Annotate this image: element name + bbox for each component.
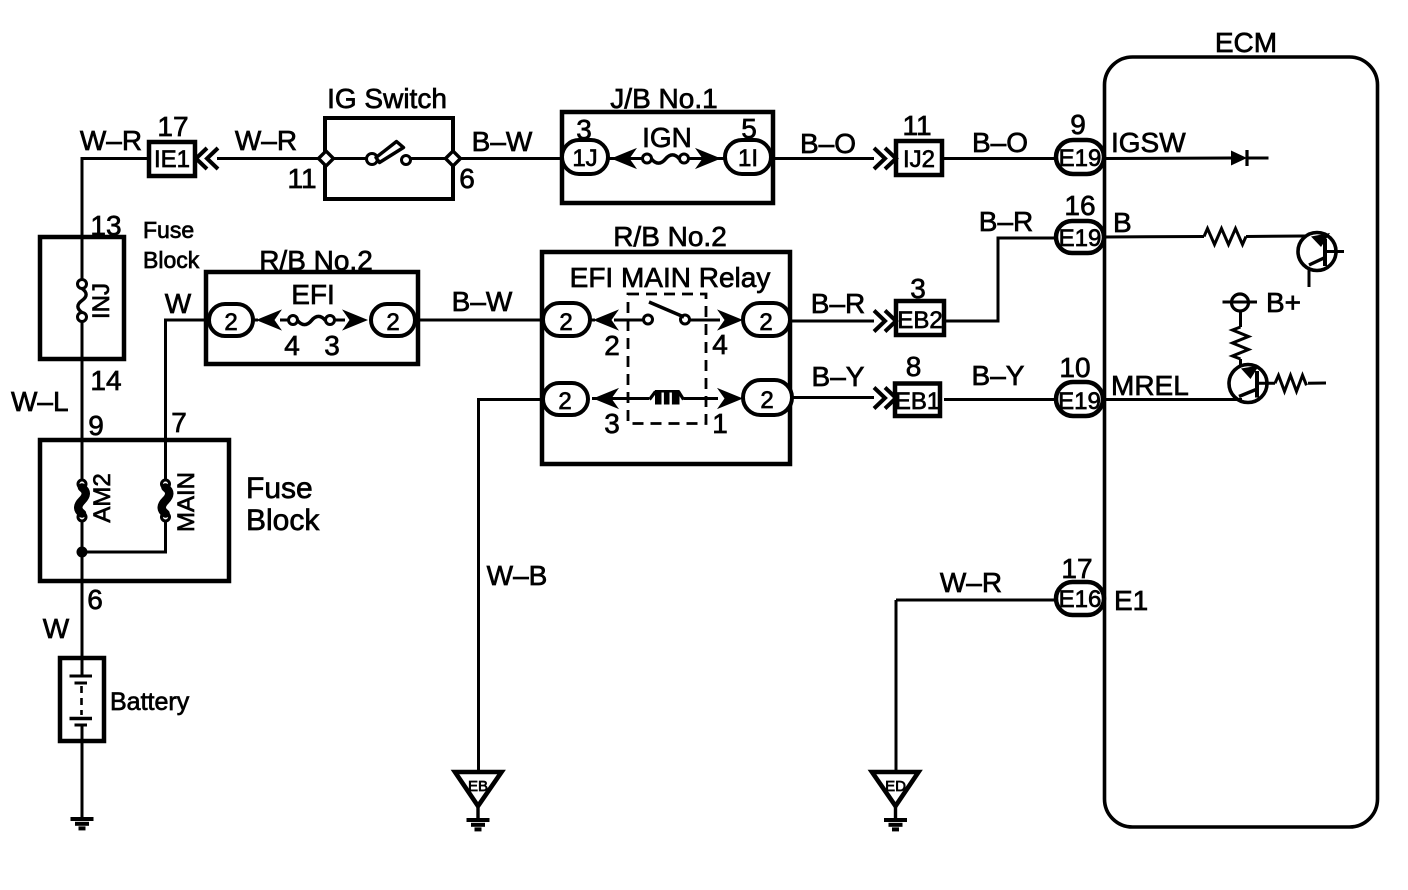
svg-text:2: 2 — [559, 309, 572, 336]
svg-text:B–Y: B–Y — [972, 360, 1025, 391]
svg-text:2: 2 — [224, 309, 237, 336]
svg-text:E16: E16 — [1059, 586, 1102, 613]
svg-text:16: 16 — [1064, 190, 1095, 221]
svg-text:EFI MAIN Relay: EFI MAIN Relay — [570, 262, 771, 293]
svg-text:MREL: MREL — [1111, 370, 1189, 401]
svg-text:B–O: B–O — [800, 128, 856, 159]
svg-text:E19: E19 — [1059, 145, 1102, 172]
svg-text:IE1: IE1 — [154, 146, 190, 173]
svg-text:1I: 1I — [738, 145, 758, 172]
svg-text:Fuse: Fuse — [246, 472, 313, 505]
svg-text:Block: Block — [246, 504, 320, 537]
svg-text:2: 2 — [386, 309, 399, 336]
svg-text:1J: 1J — [572, 145, 597, 172]
svg-text:R/B No.2: R/B No.2 — [259, 245, 373, 276]
svg-text:B–O: B–O — [972, 127, 1028, 158]
svg-text:W–R: W–R — [235, 125, 297, 156]
svg-text:1: 1 — [712, 408, 728, 439]
svg-text:11: 11 — [287, 163, 316, 194]
svg-text:3: 3 — [604, 408, 620, 439]
svg-text:9: 9 — [1070, 109, 1086, 140]
svg-text:13: 13 — [90, 210, 121, 241]
svg-text:E19: E19 — [1059, 225, 1102, 252]
svg-text:B–R: B–R — [811, 288, 865, 319]
svg-text:ED: ED — [885, 778, 906, 795]
svg-text:B–W: B–W — [472, 126, 533, 157]
svg-text:17: 17 — [1061, 553, 1092, 584]
svg-text:J/B No.1: J/B No.1 — [610, 83, 717, 114]
svg-text:6: 6 — [87, 584, 103, 615]
svg-text:7: 7 — [171, 407, 187, 438]
svg-text:Block: Block — [143, 247, 200, 273]
svg-text:W: W — [43, 613, 70, 644]
svg-text:EB: EB — [468, 778, 488, 795]
svg-text:B: B — [1113, 207, 1132, 238]
svg-text:3: 3 — [576, 114, 592, 145]
svg-text:E19: E19 — [1058, 388, 1101, 415]
svg-text:W–L: W–L — [11, 386, 69, 417]
svg-text:4: 4 — [712, 329, 728, 360]
svg-text:2: 2 — [760, 387, 773, 414]
svg-text:IJ2: IJ2 — [903, 146, 935, 173]
svg-text:IGSW: IGSW — [1111, 127, 1186, 158]
svg-text:2: 2 — [558, 388, 571, 415]
svg-text:2: 2 — [604, 330, 620, 361]
svg-text:17: 17 — [157, 111, 188, 142]
svg-text:W: W — [165, 288, 192, 319]
svg-text:4: 4 — [284, 330, 300, 361]
svg-text:11: 11 — [902, 110, 931, 141]
svg-text:EFI: EFI — [291, 279, 335, 310]
svg-text:8: 8 — [906, 351, 922, 382]
svg-text:B–W: B–W — [452, 286, 513, 317]
svg-text:MAIN: MAIN — [173, 472, 200, 532]
svg-text:IG Switch: IG Switch — [327, 83, 447, 114]
svg-text:Fuse: Fuse — [143, 217, 194, 243]
svg-text:3: 3 — [324, 330, 340, 361]
svg-text:INJ: INJ — [88, 283, 115, 319]
svg-text:5: 5 — [741, 113, 757, 144]
svg-text:6: 6 — [459, 163, 475, 194]
svg-text:B–R: B–R — [979, 206, 1033, 237]
svg-text:B+: B+ — [1266, 287, 1301, 318]
svg-text:Battery: Battery — [110, 688, 190, 716]
svg-text:3: 3 — [910, 273, 926, 304]
svg-text:14: 14 — [90, 365, 121, 396]
svg-text:2: 2 — [759, 309, 772, 336]
svg-text:W–B: W–B — [487, 560, 548, 591]
svg-text:IGN: IGN — [642, 122, 692, 153]
svg-text:EB1: EB1 — [895, 388, 940, 415]
svg-text:E1: E1 — [1114, 585, 1148, 616]
svg-text:R/B No.2: R/B No.2 — [613, 221, 727, 252]
svg-text:9: 9 — [88, 410, 104, 441]
svg-text:W–R: W–R — [940, 567, 1002, 598]
svg-text:ECM: ECM — [1215, 27, 1277, 58]
svg-text:AM2: AM2 — [89, 473, 116, 522]
svg-text:W–R: W–R — [80, 125, 142, 156]
svg-text:B–Y: B–Y — [812, 361, 865, 392]
svg-text:10: 10 — [1059, 352, 1090, 383]
svg-text:EB2: EB2 — [897, 307, 942, 334]
